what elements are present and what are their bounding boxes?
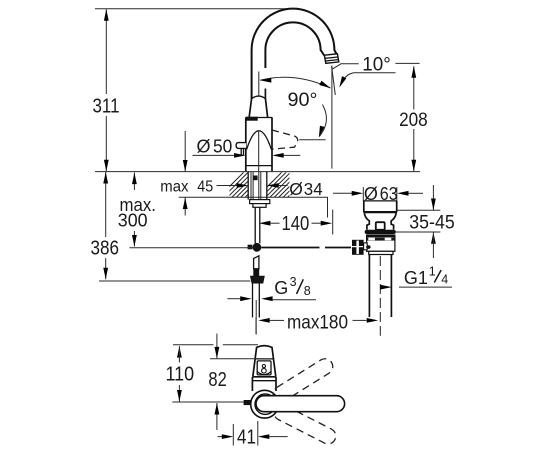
label G 1 1/4 drain thread (380, 265, 452, 290)
angle 90 degrees arc lower (317, 105, 327, 139)
cartridge dome inside body (247, 131, 272, 172)
dimension max. 300 (118, 173, 156, 247)
svg-text:110: 110 (166, 364, 195, 386)
faucet body cylinder (246, 117, 272, 172)
front view mousehole window with dots (257, 361, 271, 375)
dimension 82 (208, 334, 226, 431)
svg-text:35-45: 35-45 (409, 212, 455, 234)
wire top reference line (95, 8, 294, 10)
mounting nut under deck (250, 200, 270, 208)
countertop deck top line (95, 171, 420, 173)
dimension 41 (218, 421, 288, 449)
threaded shank through deck (248, 172, 267, 200)
dimension max180 (256, 300, 378, 335)
wire vertical stream reference line (331, 66, 333, 169)
svg-text:34: 34 (304, 179, 323, 199)
angle 90 degrees arc upper (260, 77, 332, 111)
front view spout cone (253, 346, 276, 377)
drain tailpipe (369, 255, 391, 336)
escutcheon circles (251, 390, 279, 418)
junction dot of pop-up rod and supply (248, 243, 262, 252)
svg-text:386: 386 (91, 237, 120, 260)
faucet spout inner contour (265, 22, 324, 99)
rod clamp on drain (352, 240, 371, 255)
dimension 311 (93, 9, 120, 171)
label diameter 50 (193, 137, 301, 158)
wire front top reference line (173, 344, 258, 346)
svg-text:311: 311 (93, 95, 120, 118)
label diameter 34 (267, 179, 323, 199)
svg-text:208: 208 (399, 109, 428, 131)
drain body with thread notches (367, 235, 395, 251)
solid lever horizontal (256, 396, 345, 412)
wire pop-up rod horizontal (261, 247, 351, 249)
drain flange disc (365, 230, 396, 234)
svg-text:Ø: Ø (197, 137, 211, 157)
svg-text:63: 63 (380, 184, 398, 204)
svg-text:41: 41 (237, 427, 256, 449)
svg-text:max180: max180 (287, 312, 348, 333)
lift rod guide (376, 222, 385, 230)
deck hatching right (256, 171, 314, 198)
svg-text:4: 4 (441, 273, 448, 287)
label G 3/8 connection (227, 275, 316, 301)
svg-text:8: 8 (304, 284, 311, 298)
dimension 35-45 (396, 185, 455, 258)
pop-up waste drain top cylinder (363, 187, 397, 212)
spout neck transition (249, 96, 267, 117)
dimension 140 (259, 210, 333, 236)
svg-text:140: 140 (282, 213, 310, 235)
countertop deck bottom line with step (179, 197, 328, 217)
svg-text:3: 3 (290, 275, 297, 289)
svg-text:G: G (274, 278, 288, 298)
label diameter 63 (333, 184, 423, 204)
svg-text:1: 1 (429, 265, 436, 279)
wire outlet reference line (210, 358, 262, 360)
wire handle axis line with pivot tick (172, 400, 250, 405)
dashed lever rotated up (270, 356, 336, 405)
svg-text:45: 45 (197, 179, 213, 196)
lever handle side view dashed alternate position (272, 130, 298, 149)
deck hatching left (218, 171, 276, 198)
supply tube below nut (255, 207, 260, 243)
svg-text:Ø: Ø (289, 179, 303, 199)
wire supply level line left (130, 247, 253, 249)
angle 10 degrees label (332, 54, 420, 89)
pipe centerline segment (258, 72, 260, 97)
lever handle side view solid (236, 143, 246, 156)
front view body (252, 377, 276, 391)
svg-text:90°: 90° (288, 89, 318, 111)
drain lower collar (369, 251, 393, 254)
svg-text:300: 300 (118, 210, 148, 230)
flexible hose with G3/8 end (251, 256, 265, 334)
svg-text:Ø: Ø (364, 184, 378, 204)
svg-text:82: 82 (208, 369, 226, 391)
wire tilted 10-degree stream line (332, 66, 336, 95)
aerator band at spout tip (324, 54, 338, 64)
faucet spout outer contour (252, 9, 337, 99)
dashed lever rotated down (271, 402, 338, 447)
svg-text:max: max (160, 179, 188, 196)
drain neck (364, 213, 396, 229)
dimension max 45 (160, 131, 248, 216)
dimension 110 (166, 346, 195, 401)
svg-text:G1: G1 (404, 268, 428, 288)
dimension 208 (399, 66, 428, 171)
svg-text:50: 50 (213, 137, 232, 157)
wire handle tip reference line (299, 139, 325, 141)
dimension 386 (91, 172, 251, 281)
